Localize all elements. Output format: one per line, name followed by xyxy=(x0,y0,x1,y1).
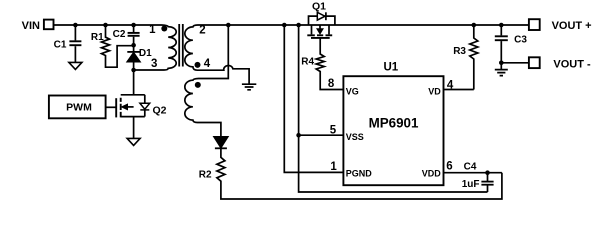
svg-text:Q2: Q2 xyxy=(152,105,166,117)
svg-text:U1: U1 xyxy=(383,62,398,74)
svg-text:8: 8 xyxy=(328,78,335,90)
svg-text:VOUT +: VOUT + xyxy=(552,20,592,32)
svg-text:C3: C3 xyxy=(514,35,527,46)
svg-text:R2: R2 xyxy=(199,170,212,181)
svg-text:1: 1 xyxy=(330,161,337,173)
svg-text:VDD: VDD xyxy=(422,168,442,178)
svg-text:D1: D1 xyxy=(139,48,152,59)
svg-text:4: 4 xyxy=(204,58,211,70)
svg-text:5: 5 xyxy=(330,124,337,136)
svg-text:MP6901: MP6901 xyxy=(369,116,419,131)
svg-text:R3: R3 xyxy=(453,46,466,57)
svg-text:C1: C1 xyxy=(54,39,67,50)
svg-text:1uF: 1uF xyxy=(462,179,480,190)
svg-text:VIN: VIN xyxy=(22,20,40,32)
svg-text:3: 3 xyxy=(151,58,157,70)
svg-text:1: 1 xyxy=(149,24,156,36)
svg-text:VSS: VSS xyxy=(346,132,364,142)
svg-text:Q1: Q1 xyxy=(312,1,326,13)
svg-text:C4: C4 xyxy=(464,161,477,172)
svg-text:PGND: PGND xyxy=(346,168,373,178)
svg-text:R1: R1 xyxy=(91,32,104,43)
svg-text:PWM: PWM xyxy=(66,102,92,114)
svg-text:VOUT -: VOUT - xyxy=(553,59,591,71)
svg-text:R4: R4 xyxy=(301,56,314,67)
svg-text:4: 4 xyxy=(447,80,454,92)
svg-text:6: 6 xyxy=(446,161,452,173)
svg-text:2: 2 xyxy=(199,25,205,37)
svg-text:VD: VD xyxy=(428,86,441,96)
svg-text:C2: C2 xyxy=(113,29,126,40)
svg-text:VG: VG xyxy=(346,86,359,96)
